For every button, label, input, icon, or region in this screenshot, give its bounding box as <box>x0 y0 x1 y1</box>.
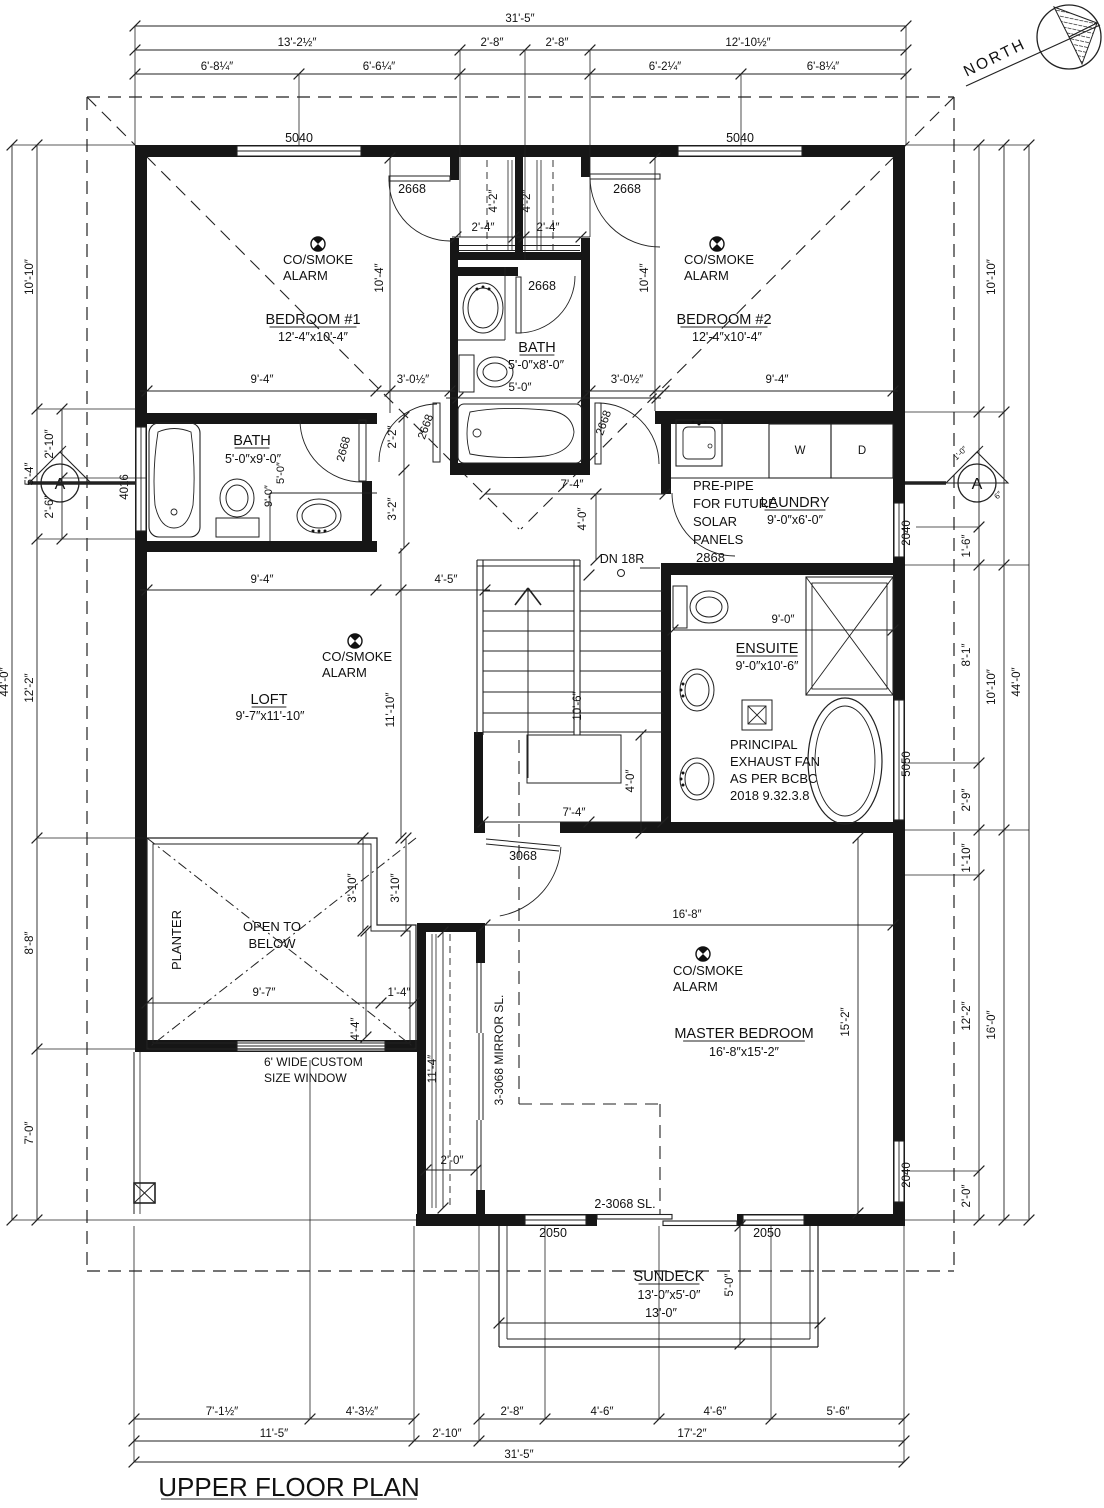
ensuite exhaust fan <box>742 700 772 730</box>
door bath1 2668 <box>359 420 366 481</box>
bath1 toilet <box>216 518 259 537</box>
laundry sink <box>676 420 722 466</box>
svg-text:2'-8″: 2'-8″ <box>546 37 569 49</box>
svg-text:2050: 2050 <box>539 1226 567 1240</box>
bedroom2 hall wall <box>581 157 590 177</box>
svg-text:1'-4″: 1'-4″ <box>388 987 411 999</box>
svg-text:4'-2″: 4'-2″ <box>488 190 500 213</box>
ensuite toilet <box>673 586 687 628</box>
door vestibule 2668 <box>595 403 601 464</box>
svg-text:EXHAUST FAN: EXHAUST FAN <box>730 754 820 769</box>
laundry left wall <box>661 411 671 494</box>
svg-text:8'-8″: 8'-8″ <box>24 932 36 955</box>
svg-text:12'-10½″: 12'-10½″ <box>725 37 770 49</box>
svg-text:SOLAR: SOLAR <box>693 514 737 529</box>
bath1 bottom wall <box>136 541 377 552</box>
exterior bottom-left wall <box>135 1040 422 1052</box>
svg-text:15'-2″: 15'-2″ <box>840 1007 852 1036</box>
bath2 top wall <box>458 267 518 276</box>
hall vertical dims 2-2 3-2 <box>403 413 405 548</box>
bedroom2 interior dims <box>654 158 656 411</box>
svg-text:9'-4″: 9'-4″ <box>251 574 274 586</box>
bedroom1 labels <box>311 237 325 251</box>
bottom dim row C <box>134 1461 904 1463</box>
svg-text:ENSUITE: ENSUITE <box>736 641 799 657</box>
svg-text:16'-8″x15'-2″: 16'-8″x15'-2″ <box>709 1045 779 1059</box>
svg-text:44'-0″: 44'-0″ <box>0 667 11 696</box>
bath2 dims <box>446 397 661 399</box>
window 2040 master <box>894 1141 905 1202</box>
master closet 2-0 dim <box>426 1169 476 1171</box>
svg-text:9'-4″: 9'-4″ <box>766 374 789 386</box>
svg-text:5'-4″: 5'-4″ <box>24 463 36 486</box>
svg-text:4'-6″: 4'-6″ <box>704 1406 727 1418</box>
custom 6ft window <box>237 1041 385 1052</box>
post bottom-left <box>134 1183 155 1203</box>
loft labels <box>348 634 362 648</box>
closet1 rod and shelf <box>486 160 488 250</box>
bath1 right wall <box>362 413 372 421</box>
svg-text:2-3068 SL.: 2-3068 SL. <box>594 1197 655 1211</box>
svg-text:12'-4″x10'-4″: 12'-4″x10'-4″ <box>278 330 348 344</box>
svg-text:11'-5″: 11'-5″ <box>260 1428 288 1440</box>
svg-text:5'-0″: 5'-0″ <box>509 382 532 394</box>
section marker A right <box>946 452 1008 483</box>
right dim col mid <box>1003 145 1005 1220</box>
top dim row 2 <box>135 49 906 51</box>
master closet right wall stubs <box>476 932 485 963</box>
closet2 rod and shelf <box>552 160 554 250</box>
bath1 tub <box>149 423 200 537</box>
svg-text:BATH: BATH <box>233 433 271 449</box>
master closet left wall <box>417 932 426 1214</box>
svg-text:2'-9″: 2'-9″ <box>961 789 973 812</box>
svg-text:BATH: BATH <box>518 340 556 356</box>
door hall 2668 <box>433 403 440 462</box>
svg-text:11'-4″: 11'-4″ <box>427 1055 439 1083</box>
door laundry 2868 <box>672 493 735 556</box>
svg-text:4'-4″: 4'-4″ <box>350 1018 362 1041</box>
svg-text:9'-0″x6'-0″: 9'-0″x6'-0″ <box>767 513 824 527</box>
bottom dim row B <box>134 1440 904 1442</box>
window 2040 laundry <box>894 503 905 557</box>
closet1 front wall <box>450 252 516 260</box>
landing 7-4 dim <box>483 821 663 823</box>
right dim col 44ft <box>1028 145 1030 1220</box>
15-2 dim <box>857 838 859 1213</box>
bottom extension lines <box>133 1226 135 1462</box>
dryer <box>831 424 893 478</box>
door bedroom1 2668 <box>389 176 450 181</box>
section marker A left <box>29 452 91 483</box>
svg-text:3068: 3068 <box>509 849 537 863</box>
svg-text:31'-5″: 31'-5″ <box>504 1449 533 1461</box>
svg-text:2'-8″: 2'-8″ <box>481 37 504 49</box>
svg-text:10'-10″: 10'-10″ <box>986 259 998 295</box>
svg-text:1'-6″: 1'-6″ <box>961 535 973 558</box>
svg-text:9'-0″: 9'-0″ <box>772 614 795 626</box>
door bedroom2 2668 <box>590 174 660 179</box>
svg-text:D: D <box>858 445 866 457</box>
north arrow <box>1037 5 1101 69</box>
svg-text:6' WIDE CUSTOM: 6' WIDE CUSTOM <box>264 1055 363 1069</box>
svg-text:3'-10″: 3'-10″ <box>347 873 359 902</box>
bath2 left wall <box>450 260 458 475</box>
ensuite sink 2 <box>680 758 714 800</box>
svg-text:4'-6″: 4'-6″ <box>591 1406 614 1418</box>
svg-text:DN 18R: DN 18R <box>600 552 644 566</box>
laundry ensuite divider wall <box>661 563 905 575</box>
washer <box>769 424 831 478</box>
svg-text:3'-10″: 3'-10″ <box>390 873 402 902</box>
svg-text:BEDROOM #1: BEDROOM #1 <box>265 312 360 328</box>
16-8 dim <box>485 924 893 926</box>
svg-text:2'-10″: 2'-10″ <box>44 429 56 458</box>
master bedroom labels <box>696 947 710 961</box>
svg-text:UPPER FLOOR PLAN: UPPER FLOOR PLAN <box>158 1472 420 1502</box>
svg-text:4'-0″: 4'-0″ <box>577 508 589 531</box>
landing 4-0 dim <box>640 735 642 833</box>
ensuite/master wall <box>474 822 485 833</box>
exterior left wall <box>135 157 147 1052</box>
top extension lines <box>134 26 136 145</box>
ensuite sink 1 <box>680 669 714 711</box>
bath2 tub <box>458 404 582 463</box>
svg-text:9'-7″: 9'-7″ <box>253 987 276 999</box>
closet1 bifold doors <box>459 245 515 247</box>
exterior top wall <box>135 145 905 157</box>
sundeck rails <box>498 1226 500 1347</box>
svg-text:11'-10″: 11'-10″ <box>385 693 397 728</box>
stair up arrow <box>527 588 529 778</box>
svg-text:2'-4″: 2'-4″ <box>472 222 495 234</box>
window 5040 left <box>237 146 361 157</box>
svg-text:BELOW: BELOW <box>249 936 297 951</box>
svg-text:LOFT: LOFT <box>250 692 287 708</box>
bedroom1 interior dims <box>389 158 391 413</box>
right dim col inner <box>978 145 980 1220</box>
svg-text:12'-4″x10'-4″: 12'-4″x10'-4″ <box>692 330 762 344</box>
planter X (dash-dot) <box>147 838 416 1049</box>
svg-text:ALARM: ALARM <box>673 979 718 994</box>
svg-text:13'-2½″: 13'-2½″ <box>278 37 317 49</box>
svg-text:FOR FUTURE: FOR FUTURE <box>693 496 777 511</box>
svg-text:BEDROOM #2: BEDROOM #2 <box>676 312 771 328</box>
right extension lines <box>905 144 1029 146</box>
svg-text:10'-10″: 10'-10″ <box>986 669 998 705</box>
svg-text:10'-4″: 10'-4″ <box>374 263 386 292</box>
svg-text:ALARM: ALARM <box>283 268 328 283</box>
svg-text:17'-2″: 17'-2″ <box>677 1428 706 1440</box>
bath2 right wall <box>581 260 590 472</box>
bath2 toilet <box>459 355 474 392</box>
svg-text:SIZE WINDOW: SIZE WINDOW <box>264 1071 347 1085</box>
svg-text:5040: 5040 <box>726 131 754 145</box>
svg-text:3'-0½″: 3'-0½″ <box>397 374 429 386</box>
sundeck dims <box>499 1322 820 1324</box>
svg-text:10'-6″: 10'-6″ <box>572 691 584 720</box>
closet2 bifold doors <box>523 245 580 247</box>
svg-text:4'-3½″: 4'-3½″ <box>346 1406 378 1418</box>
svg-text:7'-4″: 7'-4″ <box>563 807 586 819</box>
svg-text:W: W <box>795 445 806 457</box>
svg-text:2'-10″: 2'-10″ <box>432 1428 461 1440</box>
svg-text:1'-10″: 1'-10″ <box>961 843 973 872</box>
planter dims <box>147 1002 381 1004</box>
loft dims <box>400 548 402 838</box>
stair landing <box>527 735 621 783</box>
svg-text:13'-0″: 13'-0″ <box>645 1306 677 1320</box>
master closet top wall <box>417 923 485 932</box>
svg-text:2'-0″: 2'-0″ <box>961 1185 973 1208</box>
svg-text:5'-0″x8'-0″: 5'-0″x8'-0″ <box>508 358 565 372</box>
master closet rod/shelf/mirror <box>449 934 451 1208</box>
door master 3068 <box>486 839 560 846</box>
svg-text:8'-1″: 8'-1″ <box>961 644 973 667</box>
svg-text:7'-1½″: 7'-1½″ <box>206 1406 238 1418</box>
svg-text:2668: 2668 <box>528 279 556 293</box>
roof outline (dashed) <box>87 96 954 98</box>
window 4016 <box>136 427 147 531</box>
svg-text:3'-2″: 3'-2″ <box>387 498 399 521</box>
laundry counter <box>671 477 769 479</box>
hall 7-4 dim <box>485 493 665 495</box>
ensuite tub <box>808 698 882 824</box>
svg-text:2040: 2040 <box>901 520 913 546</box>
svg-text:2668: 2668 <box>398 182 426 196</box>
svg-text:13'-0″x5'-0″: 13'-0″x5'-0″ <box>638 1288 702 1302</box>
sliding door 2-3068 SL <box>597 1214 737 1226</box>
exterior right wall <box>893 157 905 1226</box>
closet dims <box>452 236 590 238</box>
svg-text:2040: 2040 <box>901 1162 913 1188</box>
master closet 11-4 dim <box>442 932 444 1208</box>
bath2 bottom wall <box>450 463 590 475</box>
lower-roof edge lines bottom-left <box>133 1052 135 1214</box>
stair left lower wall <box>474 732 483 833</box>
svg-text:ALARM: ALARM <box>684 268 729 283</box>
svg-text:PRE-PIPE: PRE-PIPE <box>693 478 754 493</box>
bath2 sink <box>504 267 506 340</box>
left extension lines <box>12 144 135 146</box>
svg-text:ALARM: ALARM <box>322 665 367 680</box>
roof hip diagonal left <box>87 97 519 529</box>
svg-text:4'-2″: 4'-2″ <box>521 190 533 213</box>
window 5040 right <box>678 146 802 157</box>
roof hip diagonal right <box>521 97 954 529</box>
closet2 front wall <box>523 252 590 260</box>
hall 4-0 dim <box>595 494 597 560</box>
svg-text:16'-0″: 16'-0″ <box>986 1010 998 1039</box>
svg-text:4'-5″: 4'-5″ <box>435 574 458 586</box>
svg-text:7'-4″: 7'-4″ <box>561 479 584 491</box>
closet center wall <box>515 157 523 260</box>
svg-text:2'-6″: 2'-6″ <box>44 496 56 519</box>
svg-text:2018 9.32.3.8: 2018 9.32.3.8 <box>730 788 810 803</box>
svg-text:PANELS: PANELS <box>693 532 744 547</box>
svg-text:10'-4″: 10'-4″ <box>639 263 651 292</box>
svg-text:2668: 2668 <box>613 182 641 196</box>
bottom dim row A <box>134 1418 414 1420</box>
svg-text:3'-0½″: 3'-0½″ <box>611 374 643 386</box>
svg-text:2'-8″: 2'-8″ <box>501 1406 524 1418</box>
left dim col 44ft <box>11 145 13 1220</box>
svg-text:OPEN TO: OPEN TO <box>243 919 301 934</box>
bedroom1 hall wall <box>450 157 459 180</box>
svg-text:AS PER BCBC: AS PER BCBC <box>730 771 817 786</box>
bath1 top wall <box>136 413 377 424</box>
svg-text:SUNDECK: SUNDECK <box>634 1269 705 1285</box>
svg-text:2'-4″: 2'-4″ <box>537 222 560 234</box>
stairwell rails <box>476 560 478 735</box>
svg-text:7'-0″: 7'-0″ <box>24 1122 36 1145</box>
svg-text:2'-2″: 2'-2″ <box>387 426 399 449</box>
left dim col bath <box>61 409 63 539</box>
svg-text:6'-6¼″: 6'-6¼″ <box>363 61 395 73</box>
svg-text:2'-0″: 2'-0″ <box>441 1155 464 1167</box>
ensuite 9-0 dim <box>673 629 893 631</box>
svg-text:CO/SMOKE: CO/SMOKE <box>673 963 743 978</box>
svg-text:10'-10″: 10'-10″ <box>24 259 36 295</box>
svg-text:3-3068 MIRROR SL.: 3-3068 MIRROR SL. <box>492 995 506 1106</box>
window 2050 right <box>743 1215 804 1226</box>
svg-text:6'-8¼″: 6'-8¼″ <box>807 61 839 73</box>
svg-text:5050: 5050 <box>901 751 913 777</box>
left dim col segments <box>36 145 38 1220</box>
svg-text:6'-8¼″: 6'-8¼″ <box>201 61 233 73</box>
stair treads <box>483 590 574 592</box>
svg-text:31'-5″: 31'-5″ <box>505 13 534 25</box>
svg-text:CO/SMOKE: CO/SMOKE <box>684 252 754 267</box>
svg-text:12'-2″: 12'-2″ <box>24 673 36 702</box>
planter / open to below box <box>147 838 416 1049</box>
ensuite shower <box>806 577 893 695</box>
svg-text:A: A <box>972 476 983 493</box>
svg-text:2050: 2050 <box>753 1226 781 1240</box>
svg-text:9'-0″: 9'-0″ <box>263 485 275 507</box>
svg-text:5'-0″: 5'-0″ <box>275 462 287 484</box>
roof lines over master/sundeck <box>518 740 520 1104</box>
svg-text:6'-2¼″: 6'-2¼″ <box>649 61 681 73</box>
svg-text:16'-8″: 16'-8″ <box>672 909 701 921</box>
laundry top wall <box>655 411 905 424</box>
svg-text:44'-0″: 44'-0″ <box>1011 667 1023 696</box>
bath1 vanity + sink <box>270 492 377 494</box>
window 5050 <box>894 700 905 820</box>
svg-text:4'-0″: 4'-0″ <box>625 770 637 793</box>
svg-text:9'-7″x11'-10″: 9'-7″x11'-10″ <box>236 709 306 723</box>
svg-text:CO/SMOKE: CO/SMOKE <box>322 649 392 664</box>
svg-text:PRINCIPAL: PRINCIPAL <box>730 737 798 752</box>
svg-text:12'-2″: 12'-2″ <box>961 1001 973 1030</box>
svg-text:CO/SMOKE: CO/SMOKE <box>283 252 353 267</box>
window 2050 left <box>525 1215 586 1226</box>
svg-text:5'-6″: 5'-6″ <box>827 1406 850 1418</box>
svg-text:MASTER BEDROOM: MASTER BEDROOM <box>674 1026 813 1042</box>
top dim row 1 <box>135 25 906 27</box>
svg-text:9'-0″x10'-6″: 9'-0″x10'-6″ <box>736 659 800 673</box>
svg-text:2868: 2868 <box>696 550 725 565</box>
svg-text:5'-0″x9'-0″: 5'-0″x9'-0″ <box>225 452 282 466</box>
exterior master bottom wall <box>416 1214 905 1226</box>
bedroom2 labels <box>710 237 724 251</box>
svg-text:9'-4″: 9'-4″ <box>251 374 274 386</box>
svg-text:PLANTER: PLANTER <box>169 910 184 970</box>
svg-text:5'-0″: 5'-0″ <box>724 1274 736 1297</box>
ensuite left wall <box>661 567 671 823</box>
door bath2 2668 <box>516 277 521 333</box>
top dim row 3 <box>135 73 906 75</box>
